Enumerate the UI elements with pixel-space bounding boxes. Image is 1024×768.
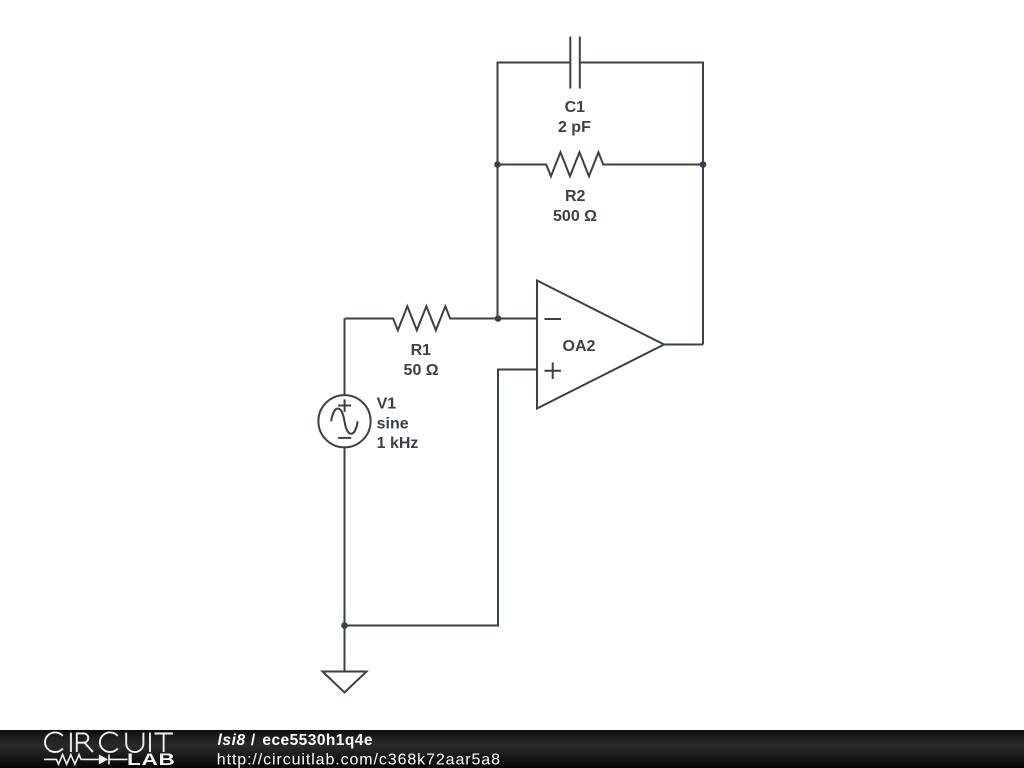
svg-text:50 Ω: 50 Ω — [404, 362, 439, 379]
svg-text:500 Ω: 500 Ω — [553, 208, 597, 225]
svg-text:OA2: OA2 — [563, 338, 596, 355]
capacitor C1 — [570, 37, 580, 89]
svg-text:/: / — [251, 732, 256, 749]
node junction ground net — [341, 622, 348, 629]
svg-text:LAB: LAB — [127, 751, 175, 768]
svg-text:ece5530h1q4e: ece5530h1q4e — [262, 732, 373, 749]
resistor R2 — [498, 152, 704, 176]
svg-text:C1: C1 — [565, 99, 586, 116]
svg-text:sine: sine — [377, 415, 409, 432]
svg-text:V1: V1 — [377, 396, 397, 413]
node junction R2 left — [494, 161, 501, 168]
wire top right (capacitor to right vertical) — [580, 63, 703, 345]
svg-text:lsi8: lsi8 — [218, 732, 246, 749]
wire V1 bottom lead — [344, 447, 346, 625]
svg-text:R2: R2 — [565, 188, 586, 205]
wire ground stem — [344, 626, 346, 672]
wire feedback left vertical (inverting node up to top loop) — [498, 63, 571, 319]
wire bottom (ground net to non-inverting branch) — [345, 370, 538, 626]
logo CIRCUIT wordmark — [45, 732, 173, 752]
voltage source V1 — [318, 395, 370, 447]
op-amp OA2 — [537, 281, 664, 409]
svg-text:http://circuitlab.com/c368k72a: http://circuitlab.com/c368k72aar5a8 — [217, 751, 501, 768]
svg-text:2 pF: 2 pF — [558, 119, 591, 136]
ground — [323, 672, 367, 693]
wire V1 top lead — [344, 319, 346, 396]
svg-text:1 kHz: 1 kHz — [377, 435, 419, 452]
wire op-amp output — [664, 344, 703, 346]
node junction R2 right — [700, 161, 707, 168]
footer title lsi8 / ece5530h1q4e — [218, 732, 373, 749]
footer bar — [0, 730, 1024, 768]
svg-text:R1: R1 — [411, 342, 432, 359]
logo resistor-diode squiggle — [44, 754, 128, 764]
resistor R1 — [345, 306, 538, 330]
node junction inverting input — [495, 315, 502, 322]
